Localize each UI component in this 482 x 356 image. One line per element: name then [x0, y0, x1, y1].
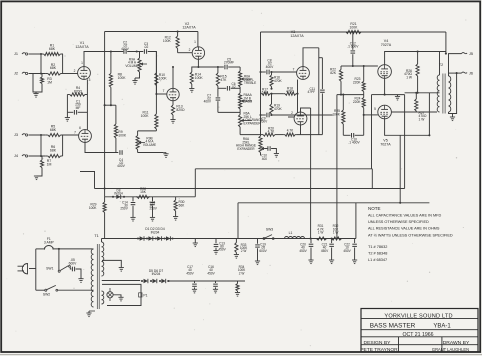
svg-text:7027A: 7027A	[381, 43, 392, 47]
wire secondary tap to J6	[449, 72, 462, 74]
svg-text:AT ½ WATTS UNLESS OTHERWIS: AT ½ WATTS UNLESS OTHERWISE SPECIFIED	[368, 234, 453, 238]
svg-text:T1 # 78632: T1 # 78632	[368, 245, 387, 249]
svg-text:DRAWN BY: DRAWN BY	[443, 340, 470, 346]
wire bias feed 1	[336, 95, 338, 239]
svg-text:1 W: 1 W	[333, 230, 339, 234]
wire mixer vertical	[148, 52, 157, 95]
svg-text:TREBLE: TREBLE	[244, 81, 256, 85]
resistor R8 100K	[110, 52, 112, 74]
diode D1 IN204	[137, 237, 139, 239]
wire V3a plate	[303, 48, 319, 67]
svg-text:SW1: SW1	[46, 266, 53, 270]
capacitor C9 .02 200V	[261, 114, 266, 116]
resistor R31 4.7K 1W	[316, 238, 317, 240]
svg-text:100K: 100K	[118, 76, 127, 80]
resistor R18 470 ohm	[272, 93, 284, 95]
resistor R24 220K	[363, 95, 365, 98]
wire V2a cathode	[198, 59, 223, 67]
wire cathode rail to feedback	[372, 94, 385, 96]
wire fuse to T1 primary top	[53, 248, 92, 250]
capacitor C15 30 250V	[152, 197, 154, 202]
ground R30	[173, 216, 178, 218]
wire V1b plate	[85, 142, 118, 152]
svg-text:J6: J6	[469, 71, 473, 75]
wire rail169 to rail188 jog	[371, 169, 373, 189]
capacitor C14 30 250V	[132, 197, 134, 202]
svg-text:470K: 470K	[274, 107, 282, 111]
resistor R17 6.8K	[261, 93, 263, 95]
svg-text:6: 6	[79, 126, 81, 130]
resistor R6 68K	[46, 155, 48, 157]
wire V5 grid	[364, 114, 378, 116]
ground R33	[234, 254, 239, 256]
ground C14	[130, 216, 135, 218]
svg-text:ALL CAPACITANCE VALUES ARE I: ALL CAPACITANCE VALUES ARE IN MFD	[368, 214, 441, 218]
ground T2 secondary	[452, 114, 454, 118]
ground R9A	[135, 75, 140, 78]
ground C20	[308, 259, 313, 261]
svg-text:1: 1	[194, 40, 196, 44]
treble pot R6A 250K	[239, 67, 241, 71]
wire V5 cathode	[385, 119, 430, 136]
resistor R13 820 ohm	[172, 101, 174, 105]
wire AC top rail	[36, 248, 45, 250]
svg-text:470K: 470K	[274, 79, 282, 83]
wire SW2 to T1 primary bottom	[58, 289, 93, 291]
svg-text:7027A: 7027A	[380, 143, 391, 147]
wire R1 to grid corner	[62, 54, 64, 74]
svg-text:.02: .02	[231, 85, 236, 89]
svg-text:400V: 400V	[117, 164, 125, 168]
volume pot R9A 4M	[139, 52, 141, 59]
svg-text:3 AMP: 3 AMP	[44, 241, 55, 245]
resistor R27 470 ohm 1W	[415, 93, 417, 99]
wire rail197 riser	[194, 169, 196, 197]
wire R11 to volume R9B	[138, 130, 157, 132]
svg-text:YBA-1: YBA-1	[433, 323, 451, 329]
capacitor C1 250MF	[67, 111, 73, 113]
svg-text:PETE TRAYNOR: PETE TRAYNOR	[360, 347, 398, 353]
wire bias feed 2	[310, 108, 312, 239]
resistor R4 820 ohm	[67, 94, 69, 96]
svg-text:IN204: IN204	[114, 192, 123, 196]
wire heater run	[80, 172, 95, 189]
ground C10	[274, 153, 279, 155]
wire T1 HT top	[101, 239, 103, 243]
ground C23	[78, 278, 83, 280]
wire SW3 to L1	[274, 238, 285, 240]
resistor R11 100K	[155, 94, 157, 114]
svg-text:47K: 47K	[220, 78, 227, 82]
svg-text:2 W: 2 W	[241, 249, 247, 253]
svg-text:400V: 400V	[121, 47, 129, 51]
svg-text:4.7K: 4.7K	[287, 128, 294, 132]
wire V3 cathodes	[297, 80, 299, 113]
resistor R7 1M	[41, 156, 43, 160]
capacitor C20 40 450V	[310, 239, 312, 244]
wire riser x404 down	[404, 95, 406, 189]
svg-text:2 W: 2 W	[239, 271, 245, 275]
resistor R20b 4.7K cathode	[300, 125, 302, 135]
svg-text:.1 600V: .1 600V	[347, 45, 359, 49]
resistor R21 100K	[344, 31, 346, 33]
svg-text:1 W: 1 W	[406, 75, 413, 79]
svg-text:270MF: 270MF	[224, 61, 234, 65]
svg-text:220K: 220K	[353, 80, 361, 84]
svg-text:450V: 450V	[207, 271, 215, 275]
pentode V5 7027A	[378, 105, 392, 119]
wire B+ left vertical	[104, 32, 106, 197]
wire J1 to R1	[29, 53, 42, 55]
resistor R20b 4.7K cathode V3b	[284, 134, 285, 136]
wire grid V1b	[63, 135, 79, 156]
wire C11 branch	[319, 57, 323, 59]
svg-text:15K: 15K	[140, 190, 147, 194]
svg-text:450V: 450V	[321, 249, 329, 253]
svg-text:56K: 56K	[179, 203, 186, 207]
wire rail202 to T2 tap riser	[428, 93, 430, 136]
wire T2 primary bottom	[439, 111, 441, 113]
wire expander bottom x240	[240, 134, 260, 136]
resistor R5 68K	[46, 134, 48, 136]
wire V4 cathode	[385, 78, 405, 94]
capacitor C21 40 450V	[331, 239, 333, 244]
svg-text:7: 7	[163, 89, 165, 93]
capacitor C19 .05 600V	[257, 239, 259, 244]
wire plate-load node	[105, 104, 116, 106]
wire grid V2b	[156, 93, 166, 95]
switch SW2	[45, 289, 47, 291]
triode V2b	[167, 88, 179, 100]
capacitor C23 .05 600V	[70, 267, 71, 269]
capacitor C13 80 450V	[215, 239, 217, 244]
svg-text:250V: 250V	[120, 207, 128, 211]
svg-text:100K: 100K	[195, 76, 204, 80]
triode V3a	[297, 67, 310, 80]
wire J3 to R5	[29, 134, 46, 136]
svg-text:YORKVILLE SOUND LTD: YORKVILLE SOUND LTD	[384, 314, 452, 320]
ground HT centre	[194, 239, 196, 244]
svg-text:2: 2	[74, 69, 76, 73]
svg-text:250V: 250V	[150, 207, 158, 211]
resistor R26 470 ohm 1W	[417, 52, 419, 65]
diode D8 IN204	[112, 196, 114, 198]
svg-text:3: 3	[89, 78, 91, 82]
resistor R14 100K	[192, 67, 199, 68]
wire T1 heater centre tap	[102, 260, 121, 267]
svg-text:J2: J2	[14, 72, 18, 76]
resistor R10 100K	[155, 52, 157, 73]
wire HT rail	[102, 238, 356, 240]
wire V2a plate from rail	[197, 32, 199, 47]
resistor R2 68K	[46, 73, 48, 75]
wire grid V1a	[63, 73, 78, 75]
wire signal rail vertical x260	[260, 32, 262, 133]
svg-text:82K: 82K	[330, 71, 337, 75]
svg-text:6.8K: 6.8K	[262, 91, 270, 95]
svg-text:820Ω: 820Ω	[74, 89, 83, 93]
output jack J5	[462, 53, 468, 54]
svg-text:100K: 100K	[350, 25, 359, 29]
svg-text:1M: 1M	[47, 162, 52, 166]
triode V1a	[78, 67, 91, 80]
svg-text:820Ω: 820Ω	[176, 108, 185, 112]
svg-text:.1 400V: .1 400V	[348, 141, 360, 145]
wire bias winding	[102, 280, 140, 282]
output jack J6	[462, 72, 468, 73]
title block	[361, 309, 478, 352]
capacitor C2 .02 400V	[123, 49, 125, 54]
ground heater tap	[119, 267, 124, 269]
triode V3b	[294, 112, 307, 125]
svg-text:12AX7A: 12AX7A	[75, 45, 89, 49]
svg-text:SW2: SW2	[43, 292, 50, 296]
fuse F1 3AMP	[45, 246, 53, 249]
svg-text:2: 2	[189, 48, 191, 52]
ground C1	[66, 112, 68, 117]
ground C13	[213, 250, 218, 252]
svg-text:VOLUME: VOLUME	[125, 64, 138, 68]
scan speckles	[157, 55, 158, 56]
svg-text:EXPANDER: EXPANDER	[237, 147, 255, 151]
wire V4 grid	[353, 65, 378, 67]
svg-text:450V: 450V	[218, 248, 226, 252]
wire tone stack node	[217, 66, 219, 68]
wire node J1-J2	[40, 54, 42, 74]
wire R20 to bias column	[280, 134, 284, 136]
svg-text:T2 # 68348: T2 # 68348	[368, 252, 387, 256]
svg-text:68K: 68K	[50, 128, 57, 132]
resistor R22 82K	[341, 65, 353, 67]
ground R3	[35, 92, 37, 94]
capacitor C8 .02 400V	[261, 71, 266, 73]
resistor R25 100K	[342, 95, 344, 110]
wire rail2 top	[261, 31, 446, 33]
wire expander to rail	[239, 129, 241, 135]
svg-text:EXPANDER: EXPANDER	[244, 121, 262, 125]
diode D2 IN204	[146, 237, 148, 239]
capacitor C10b .1 400V	[343, 134, 350, 136]
svg-text:4.7K: 4.7K	[268, 130, 276, 134]
svg-text:OCT 21 1966: OCT 21 1966	[402, 332, 433, 338]
bass pot R6AA 1M	[239, 90, 241, 93]
resistor R15 47K	[217, 67, 219, 73]
svg-text:1 W: 1 W	[419, 117, 426, 121]
svg-text:1M: 1M	[47, 80, 52, 84]
svg-text:100K: 100K	[89, 206, 97, 210]
svg-text:600V: 600V	[259, 249, 267, 253]
svg-text:200V: 200V	[260, 120, 268, 124]
wire SW1 branch	[58, 249, 60, 271]
svg-text:12AX7A: 12AX7A	[290, 34, 304, 38]
capacitor C17 40 450V	[194, 281, 196, 283]
ground C17	[192, 288, 197, 290]
wire V5 plate	[391, 111, 437, 113]
ground pilot	[113, 295, 121, 298]
svg-text:100K: 100K	[141, 114, 150, 118]
svg-text:2: 2	[291, 111, 293, 115]
wire V3b plate	[301, 108, 311, 112]
capacitor C7 .02 400V	[217, 88, 219, 97]
wire B+ rail y188	[95, 188, 405, 190]
wire R24 bottom to C10b	[363, 115, 365, 135]
wire C7 bottom	[218, 111, 240, 113]
choke L1	[285, 237, 305, 239]
wire rail y202	[238, 202, 429, 204]
wire rail238 to rail202 riser	[355, 203, 357, 239]
wire screen node	[405, 92, 437, 94]
svg-text:IN204: IN204	[152, 272, 161, 276]
wire V2a grid	[178, 52, 193, 54]
wire R3 to ground	[33, 74, 42, 93]
diode D6 IN204	[150, 280, 152, 282]
ground R13	[172, 118, 174, 120]
svg-text:7: 7	[74, 130, 76, 134]
capacitor C11 47PF	[318, 48, 320, 135]
wire V3b grid	[288, 116, 294, 118]
svg-text:J5: J5	[469, 52, 473, 56]
wire V1a plate	[84, 52, 123, 67]
switch SW3 standby	[173, 238, 264, 240]
wire R32 end	[343, 238, 356, 240]
ground R34	[235, 292, 240, 294]
capacitor C4 .02 400V	[119, 150, 121, 155]
ground V4 V5 cathodes	[397, 95, 399, 97]
svg-text:5: 5	[374, 107, 376, 111]
wire J6 to secondary bottom	[449, 73, 457, 113]
wire R4 loop	[66, 95, 68, 113]
diode D7 IN204	[159, 280, 161, 282]
wire V4 plate	[385, 52, 446, 65]
resistor R28 15K	[136, 196, 137, 198]
capacitor C5 270MF	[224, 65, 226, 70]
wire T2 secondary top to J5	[449, 54, 462, 76]
high range expander pot 25K	[260, 133, 262, 136]
wire supply rail y197	[105, 196, 196, 198]
wire screen rail y169	[195, 168, 372, 170]
svg-text:VOLUME: VOLUME	[143, 143, 156, 147]
ground T1 bottom	[88, 311, 90, 313]
svg-text:12AX7A: 12AX7A	[182, 26, 196, 30]
svg-text:DESIGN BY: DESIGN BY	[364, 340, 392, 346]
svg-text:7: 7	[293, 68, 295, 72]
svg-text:68K: 68K	[49, 47, 56, 51]
svg-text:UNLESS OTHERWISE SPECIFIED: UNLESS OTHERWISE SPECIFIED	[368, 220, 429, 224]
wire feedback from rail	[445, 32, 447, 54]
svg-text:400V: 400V	[266, 65, 274, 69]
resistor R19 470K	[271, 94, 273, 104]
svg-text:220K: 220K	[353, 100, 361, 104]
resistor R20 4.7K	[260, 134, 263, 136]
svg-text:J1: J1	[14, 52, 18, 56]
ground C21	[329, 259, 334, 261]
svg-text:100K: 100K	[163, 39, 172, 43]
svg-text:P1: P1	[143, 293, 147, 297]
wire R31 R32	[328, 238, 331, 240]
AC plug	[22, 264, 27, 274]
resistor R9 100K	[115, 105, 117, 124]
svg-text:MF: MF	[76, 106, 81, 110]
ground C22	[352, 259, 357, 261]
capacitor C16 40 450V	[215, 281, 217, 283]
resistor R33 100K 2W	[235, 239, 237, 243]
resistor R30 56K	[175, 197, 177, 200]
triode V1b	[79, 130, 92, 143]
wire C5 to tone stack	[228, 66, 240, 68]
wire AC bottom rail	[36, 289, 45, 291]
resistor R32 10K 1W	[331, 238, 332, 240]
wire riser x400	[399, 135, 401, 203]
diode D3 IN204	[155, 237, 157, 239]
svg-text:1: 1	[81, 61, 83, 65]
svg-text:NOTE: NOTE	[368, 206, 381, 211]
wire C2-C3	[127, 51, 143, 53]
svg-text:IN204: IN204	[151, 230, 160, 234]
svg-text:1 W: 1 W	[318, 230, 324, 234]
svg-text:SW3: SW3	[266, 228, 273, 232]
diode D4 IN204	[164, 237, 166, 239]
wire node J3-J4	[40, 135, 42, 156]
wire T2 primary top	[439, 52, 441, 76]
svg-text:100K: 100K	[159, 76, 168, 80]
volume pot R9B 4M	[137, 131, 139, 136]
svg-text:GRANT LAUGHLEN: GRANT LAUGHLEN	[432, 347, 469, 352]
pilot lamp P1	[107, 292, 113, 298]
svg-text:450V: 450V	[186, 271, 194, 275]
svg-text:600V: 600V	[69, 262, 77, 266]
svg-text:BASS MASTER: BASS MASTER	[370, 323, 416, 330]
wire V2b plate	[172, 67, 174, 88]
wire cathode sense vertical	[371, 95, 373, 169]
pentode V4 7027A	[378, 65, 392, 79]
wire J2 to R2	[29, 73, 46, 75]
resistor R16 470K	[271, 72, 273, 75]
triode V2a	[192, 47, 204, 59]
page bottom edge shadow	[0, 354, 482, 356]
switch SW1	[58, 270, 60, 272]
wire T2 centre tap	[437, 92, 440, 94]
svg-text:450V: 450V	[343, 249, 351, 253]
svg-text:400V: 400V	[204, 100, 212, 104]
svg-text:T1: T1	[94, 234, 98, 238]
wire bias mid node	[337, 94, 364, 96]
pilot lamp loop	[102, 284, 141, 305]
wire R9B to ground	[138, 152, 163, 154]
capacitor C12 .1 600V	[352, 32, 354, 50]
ground C16	[213, 288, 218, 290]
ground R7	[37, 172, 43, 177]
resistor R29 100K bleed	[104, 197, 106, 202]
svg-text:L1: L1	[289, 231, 293, 235]
svg-text:ALL RESISTANCE VALUE ARE IN: ALL RESISTANCE VALUE ARE IN OHMS	[368, 227, 440, 231]
svg-text:450V: 450V	[299, 249, 307, 253]
svg-text:400: 400	[262, 157, 268, 161]
wire rail y202 riser	[237, 203, 239, 239]
svg-text:L1 # 68347: L1 # 68347	[368, 258, 387, 262]
capacitor C10 .02 400	[265, 148, 267, 150]
low range expander pot R6B 25K	[239, 112, 241, 114]
ground C19	[255, 260, 260, 262]
svg-text:.02: .02	[144, 45, 149, 49]
svg-text:100K: 100K	[118, 133, 127, 137]
resistor R23 220K	[363, 66, 365, 81]
ground R14	[191, 87, 193, 89]
resistor R34 100K 2W	[237, 281, 239, 284]
resistor R1 68K	[41, 53, 44, 55]
wire AC split vertical	[35, 249, 37, 290]
svg-text:470Ω: 470Ω	[286, 90, 294, 94]
wire bias out	[167, 280, 245, 282]
